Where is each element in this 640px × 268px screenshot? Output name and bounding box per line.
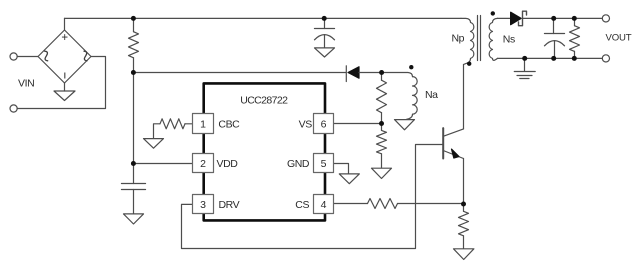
node aux top bbox=[379, 70, 384, 75]
IC U1 UCC28722 bbox=[204, 83, 325, 220]
polarity dot Ns bbox=[491, 11, 495, 15]
bridge ac mark left bbox=[45, 51, 48, 61]
earth ground secondary bbox=[524, 58, 526, 71]
svg-text:CS: CS bbox=[295, 199, 309, 211]
resistor load bbox=[574, 18, 576, 25]
svg-text:UCC28722: UCC28722 bbox=[240, 94, 288, 106]
resistor sense bbox=[463, 204, 465, 211]
node VS divider bbox=[379, 121, 384, 126]
wire to Na bbox=[382, 73, 413, 77]
bridge minus bbox=[64, 73, 66, 79]
ground bbox=[124, 214, 144, 224]
bridge rectifier BR1 bbox=[38, 30, 91, 83]
node top rail left bbox=[131, 16, 136, 21]
wire CS to resistor bbox=[334, 203, 368, 205]
pin 2 box bbox=[193, 154, 214, 173]
node VDD pin2 bbox=[131, 161, 136, 166]
wire secondary top bbox=[498, 17, 511, 19]
transistor Q1 bbox=[442, 128, 444, 158]
bridge ac mark right bbox=[84, 51, 87, 61]
resistor CS series bbox=[368, 199, 398, 209]
polarity dot Na bbox=[409, 65, 413, 69]
svg-text:Na: Na bbox=[425, 89, 438, 101]
svg-text:GND: GND bbox=[287, 158, 310, 170]
transformer primary Np bbox=[461, 18, 474, 64]
svg-text:4: 4 bbox=[321, 199, 327, 211]
svg-text:VDD: VDD bbox=[217, 158, 239, 170]
node VDD rail bbox=[131, 70, 136, 75]
wire collector bbox=[463, 65, 465, 129]
wire VDD vertical bbox=[133, 73, 135, 164]
wire DRV loop bbox=[182, 145, 443, 249]
pin 3 box bbox=[193, 195, 214, 214]
ground bbox=[372, 168, 392, 178]
transformer secondary Ns bbox=[489, 18, 497, 60]
svg-text:Ns: Ns bbox=[503, 33, 515, 45]
svg-text:5: 5 bbox=[321, 158, 327, 170]
ground bbox=[395, 120, 415, 130]
node top rail cap bbox=[322, 16, 327, 21]
wire bbox=[359, 72, 382, 74]
svg-text:1: 1 bbox=[200, 118, 206, 130]
terminal VIN top bbox=[10, 53, 17, 60]
inductor Na bbox=[413, 77, 418, 115]
core bbox=[477, 16, 479, 61]
wire bbox=[523, 17, 602, 19]
terminal VIN bottom bbox=[10, 105, 17, 112]
pin 1 box bbox=[193, 114, 214, 134]
svg-text:VS: VS bbox=[299, 118, 313, 130]
diode D1 aux bbox=[345, 66, 347, 82]
capacitor bulk top bbox=[324, 18, 326, 28]
wire top rail bbox=[65, 17, 462, 19]
pin 5 box bbox=[314, 154, 334, 173]
ground bbox=[454, 249, 474, 260]
resistor VS upper bbox=[381, 73, 383, 81]
wire bbox=[64, 83, 66, 91]
ground bbox=[144, 139, 164, 149]
terminal VOUT bottom bbox=[602, 55, 609, 62]
svg-text:+: + bbox=[61, 32, 68, 44]
svg-text:3: 3 bbox=[200, 199, 206, 211]
node out cap top bbox=[551, 16, 556, 21]
wire secondary bottom bbox=[498, 57, 603, 59]
wire VDD rail bbox=[134, 72, 346, 74]
capacitor C out bbox=[553, 18, 555, 33]
ground bbox=[315, 48, 335, 57]
resistor startup bbox=[133, 18, 135, 31]
node out res top bbox=[572, 16, 577, 21]
wire VDD to pin2 bbox=[134, 163, 193, 165]
wire bbox=[398, 203, 464, 205]
resistor VS lower bbox=[381, 124, 383, 131]
terminal VOUT top bbox=[602, 15, 609, 22]
wire VS pin6 bbox=[334, 123, 382, 125]
node secondary gnd bbox=[522, 56, 527, 61]
wire emitter bbox=[463, 159, 465, 205]
node out cap bottom bbox=[551, 56, 556, 61]
svg-text:Np: Np bbox=[452, 33, 465, 45]
svg-text:6: 6 bbox=[321, 118, 327, 130]
pin 6 box bbox=[314, 114, 334, 134]
polarity dot Np bbox=[467, 62, 471, 66]
wire bbox=[17, 56, 38, 58]
node out res bottom bbox=[572, 56, 577, 61]
node CS emitter bbox=[461, 202, 466, 207]
diode D2 output schottky bbox=[511, 12, 522, 25]
wire GND pin5 bbox=[334, 164, 349, 174]
svg-text:2: 2 bbox=[200, 158, 206, 170]
svg-text:DRV: DRV bbox=[219, 199, 240, 211]
pin 4 box bbox=[314, 195, 334, 214]
resistor CBC bbox=[185, 123, 193, 125]
wire bbox=[17, 57, 105, 109]
svg-text:VIN: VIN bbox=[18, 78, 34, 90]
capacitor C VDD bbox=[133, 164, 135, 184]
svg-text:VOUT: VOUT bbox=[606, 32, 632, 43]
wire bbox=[64, 18, 66, 30]
svg-text:CBC: CBC bbox=[218, 118, 240, 130]
ground bbox=[54, 91, 75, 101]
ground bbox=[339, 174, 359, 184]
